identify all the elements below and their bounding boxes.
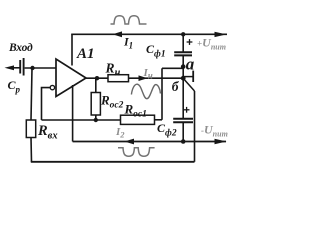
polarity plus of Cф2 xyxy=(184,107,190,113)
wire Rос2 to bus xyxy=(95,115,97,120)
wire Cф2 to negative rail xyxy=(182,122,184,141)
wire bottom common rail xyxy=(31,161,195,163)
wire feedback bus xyxy=(42,119,121,121)
wire rail to Cф1 xyxy=(182,34,184,52)
wire Cф1 to node a xyxy=(182,55,184,66)
wire node a to node b xyxy=(182,67,184,79)
wire op-amp output xyxy=(85,77,108,79)
resistor Rн xyxy=(108,75,129,82)
wire op-amp negative supply pin xyxy=(72,85,74,142)
node a xyxy=(181,64,186,69)
wire Rос1 to riser xyxy=(155,119,163,121)
arrow I2 xyxy=(125,139,135,145)
wire Cp to non-inverting input xyxy=(25,67,57,69)
waveform I2 half-wave pulses xyxy=(118,148,155,157)
wire riser to node a xyxy=(162,67,183,69)
node top rail junction xyxy=(181,32,185,36)
node b xyxy=(181,76,186,81)
arrow Iн xyxy=(139,75,148,81)
wire top +U rail xyxy=(71,33,227,35)
arrow +U terminal xyxy=(215,32,227,37)
wire negative U line xyxy=(73,141,226,143)
wire Rн to node b xyxy=(129,77,184,79)
wire inverting input xyxy=(42,88,51,120)
wire input to Cp xyxy=(11,67,20,69)
wire Rос2 from output junction xyxy=(95,78,97,92)
resistor Rос1 xyxy=(121,115,155,124)
svg-text:А1: А1 xyxy=(76,46,95,62)
capacitor Cф1 xyxy=(174,52,192,55)
capacitor Cp xyxy=(20,58,23,76)
wire junction down to Rвх xyxy=(31,68,32,120)
wire right drop to bottom rail xyxy=(194,91,196,162)
input terminal arrow xyxy=(5,65,15,70)
node negative rail junction xyxy=(181,139,186,144)
waveform I1 half-wave pulses xyxy=(111,16,147,24)
op-amp inverting input bubble xyxy=(50,85,54,89)
node input junction xyxy=(30,66,34,70)
wire feedback riser xyxy=(161,68,163,120)
arrow -U terminal xyxy=(215,139,227,144)
node feedback junction xyxy=(94,118,98,122)
node output junction xyxy=(95,76,99,80)
resistor Rос2 xyxy=(91,93,100,116)
svg-text:Вход: Вход xyxy=(8,42,33,54)
wire op-amp positive supply pin xyxy=(71,34,73,65)
terminal stub at node b xyxy=(183,71,193,82)
capacitor Cф2 xyxy=(173,119,193,122)
polarity plus of Cф1 xyxy=(187,39,193,45)
wire node b to Cф2 xyxy=(182,78,184,118)
wire Rвх to bottom rail xyxy=(30,138,33,162)
waveform output sine xyxy=(131,84,160,99)
arrow I1 on top rail xyxy=(113,31,123,37)
wire node b diagonal to right drop xyxy=(184,79,195,91)
resistor Rвх xyxy=(26,120,35,138)
op-amp A1 xyxy=(56,59,86,97)
